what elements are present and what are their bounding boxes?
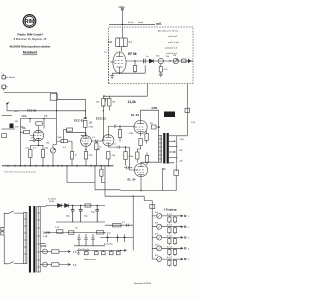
- svg-text:1M: 1M: [46, 143, 49, 145]
- svg-text:1M: 1M: [96, 102, 99, 104]
- svg-text:2,5: 2,5: [73, 251, 77, 254]
- svg-text:0,1: 0,1: [63, 147, 67, 149]
- wire res left V3: [57, 141, 72, 151]
- svg-text:Musikant: Musikant: [23, 51, 38, 55]
- junction routing: [104, 205, 106, 207]
- diode D1 in box: [149, 59, 153, 63]
- resistor row b: [173, 228, 176, 233]
- secondary winding S: [37, 207, 40, 273]
- svg-text:mV.: mV.: [156, 22, 162, 26]
- tube V6 grids: [136, 170, 144, 172]
- svg-text:470: 470: [150, 123, 154, 125]
- wire row 1 with arrow: [152, 215, 183, 217]
- svg-text:100k: 100k: [57, 137, 63, 139]
- potentiometer row: [157, 213, 162, 218]
- transformer core bar 2: [167, 133, 169, 164]
- svg-text:G55: G55: [152, 106, 158, 110]
- balance wire 4: [110, 250, 112, 251]
- V5 plate wire up to transformer: [141, 110, 159, 135]
- heater row 1 wire: [40, 251, 42, 253]
- pot arrow: [157, 236, 161, 240]
- wire input line A drop: [56, 92, 58, 110]
- junction dot lineB: [56, 110, 57, 111]
- wire plate to chain: [126, 60, 193, 62]
- svg-text:2x Z150: 2x Z150: [48, 199, 57, 201]
- svg-text:3: 3: [188, 238, 190, 240]
- route caps down: [106, 234, 109, 242]
- wire resistor below bus: [101, 166, 105, 183]
- ladder row 3: [152, 234, 190, 246]
- tube V5 plate: [137, 120, 144, 123]
- potentiometer row: [157, 224, 162, 229]
- ground bus: [2, 165, 114, 167]
- svg-text:ECC 83: ECC 83: [27, 109, 37, 113]
- mic series box: [2, 134, 7, 138]
- diode D2: [58, 203, 62, 207]
- V6 cathode down: [140, 179, 142, 191]
- balance ground tick 1: [77, 250, 80, 254]
- feedback resistor: [185, 108, 190, 112]
- wire plate V3: [64, 130, 87, 143]
- wire lower coupling: [108, 146, 113, 148]
- ladder top box: [150, 205, 155, 209]
- ladder row 4: [152, 244, 190, 255]
- heater row1 wire arrow: [47, 251, 70, 253]
- screen tap arrow: [156, 126, 160, 128]
- svg-text:GL: GL: [75, 228, 79, 230]
- junction V6 cathode ground: [140, 190, 141, 191]
- V5 screen resistor: [145, 134, 148, 141]
- svg-text:für 2te: für 2te: [128, 21, 135, 24]
- resistor row b: [173, 260, 176, 265]
- wire input line A: [4, 91, 57, 93]
- svg-text:50µ: 50µ: [84, 216, 88, 218]
- bus junction dots: [20, 165, 22, 167]
- svg-text:6,3V: 6,3V: [41, 244, 47, 248]
- svg-text:Radio RIM GmbH: Radio RIM GmbH: [17, 33, 43, 37]
- ladder rows group: [152, 212, 190, 267]
- wire input line B: [7, 110, 85, 112]
- cathode resistor tube V2 left: [29, 150, 32, 158]
- svg-text:25µ: 25µ: [45, 148, 49, 150]
- svg-text:6,3: 6,3: [73, 264, 77, 267]
- output arrow glyph in box: [188, 59, 191, 63]
- wire row 5 with arrow: [152, 258, 183, 260]
- svg-text:50k: 50k: [22, 127, 27, 130]
- wire C3 to grid: [81, 128, 86, 136]
- svg-text:1M: 1M: [173, 55, 176, 57]
- grid network wire: [20, 119, 23, 143]
- balance box 2: [94, 252, 98, 255]
- wire V4 cath: [107, 159, 109, 166]
- resistor row a: [168, 260, 171, 265]
- svg-text:820: 820: [97, 149, 101, 151]
- resistor below bus: [100, 169, 103, 176]
- wire B+ feed down: [121, 10, 123, 38]
- filter ground bus: [56, 221, 105, 223]
- svg-text:0,1: 0,1: [122, 222, 126, 224]
- wire bus drop x67: [67, 166, 95, 183]
- box2 on mid line: [69, 231, 74, 234]
- junction dot chain2: [169, 60, 170, 61]
- resistor under C3: [84, 121, 87, 128]
- junction routing2: [133, 196, 134, 197]
- ladder bus vertical: [151, 201, 153, 260]
- resistor row b: [173, 239, 176, 244]
- resistor feed a: [102, 99, 105, 107]
- node input2: [6, 103, 8, 105]
- output terminal: [184, 215, 186, 217]
- svg-text:25µ: 25µ: [89, 155, 93, 157]
- V5 cathode resistor: [139, 139, 142, 146]
- resistor tube1 plate load: [36, 122, 42, 125]
- grid network resistor: [24, 131, 30, 134]
- primary winding bars inner: [159, 136, 162, 163]
- V6 screen components: [145, 156, 148, 163]
- heater row1 fuse circle: [43, 249, 48, 254]
- wire V4 grid from divider: [102, 111, 105, 141]
- cathode resistor tube V2 right: [41, 150, 44, 158]
- svg-text:220/6: 220/6: [49, 201, 55, 203]
- mains plug symbol: [1, 228, 4, 235]
- indicator tube circle: [158, 58, 163, 63]
- svg-text:1,5k: 1,5k: [25, 148, 30, 150]
- output terminal: [184, 226, 186, 228]
- wire row 3 with arrow: [152, 237, 183, 239]
- input jack J1: [2, 74, 8, 79]
- volume pot arrow: [51, 149, 55, 153]
- power trafo core bar 1: [29, 206, 31, 273]
- tube V1 plate: [116, 52, 123, 57]
- filter cap 3: [95, 206, 99, 223]
- tube V4 envelope: [103, 135, 114, 146]
- svg-text:1k 4,7: 1k 4,7: [167, 225, 174, 227]
- pot arrow: [174, 59, 178, 63]
- wire input line A2: [57, 99, 85, 117]
- junction: [125, 146, 126, 147]
- ground symbol below indicator: [159, 74, 163, 77]
- cathode resistor V3a: [70, 152, 73, 160]
- mic input line 1: [2, 115, 13, 117]
- cathode resistor V3b: [84, 152, 87, 160]
- svg-text:EF 86: EF 86: [128, 52, 137, 56]
- svg-text:470k: 470k: [89, 127, 95, 129]
- pot arrow: [157, 214, 161, 218]
- wire right lower: [162, 164, 176, 191]
- output terminal: [184, 258, 186, 260]
- wire resistor stubs: [169, 259, 175, 267]
- filter cap 1: [71, 206, 75, 223]
- potentiometer row: [157, 235, 162, 240]
- ladder row 2: [152, 223, 190, 235]
- tube V3 envelope: [81, 136, 92, 147]
- secondary tap 6: [169, 136, 177, 163]
- heater row2 box: [52, 263, 60, 266]
- wire mains vertical: [3, 213, 5, 263]
- wire bus drop x95: [95, 166, 121, 190]
- wire to box edge: [186, 60, 193, 62]
- wire chain segment: [144, 63, 146, 73]
- junction lineA2: [85, 110, 86, 111]
- title underline: [23, 54, 38, 56]
- junction balance: [120, 250, 121, 251]
- mic input line 2: [2, 128, 16, 130]
- secondary tap 5: [169, 156, 177, 158]
- svg-text:0,1: 0,1: [33, 148, 37, 150]
- tube V1 EF86 envelope: [113, 52, 126, 73]
- secondary tap 3: [169, 146, 177, 148]
- filter resistor mid: [85, 204, 91, 207]
- svg-text:1M: 1M: [109, 41, 112, 44]
- resistor above V6: [136, 152, 139, 159]
- B+ routing from bus: [105, 166, 144, 251]
- svg-text:1k 4,7: 1k 4,7: [167, 236, 174, 238]
- extra box mid rail right: [97, 231, 104, 234]
- NTC box: [57, 230, 63, 233]
- ladder row 5: [152, 255, 190, 267]
- svg-text:Anschluss für 2te Ka.: Anschluss für 2te Ka.: [158, 30, 179, 33]
- svg-text:2mV: 2mV: [15, 127, 20, 129]
- svg-text:Kanal: Kanal: [138, 22, 144, 24]
- balance box 4: [109, 252, 113, 255]
- output terminal: [184, 247, 186, 249]
- power trafo core bar 2: [33, 206, 35, 273]
- box on mid route: [113, 224, 122, 227]
- svg-text:1M: 1M: [15, 121, 18, 123]
- ladder row 1: [152, 212, 190, 224]
- balance wire 3: [102, 250, 104, 251]
- wire extra resistor: [95, 141, 97, 166]
- HV line: [46, 205, 105, 207]
- pot arrow: [157, 225, 161, 229]
- svg-text:1: 1: [188, 216, 190, 218]
- svg-text:8 München 15, Bayerstr. 25: 8 München 15, Bayerstr. 25: [14, 37, 47, 41]
- coupling cap into tube V3 grid: [84, 111, 86, 118]
- heater row1 box: [52, 250, 60, 253]
- tube V2 grid: [30, 135, 41, 137]
- svg-text:220k: 220k: [22, 115, 28, 118]
- tube V6 cathode: [138, 175, 144, 179]
- balance box 1: [84, 252, 88, 255]
- mic jack dark: [10, 124, 14, 129]
- cap grid: [29, 139, 37, 142]
- wire row 2 with arrow: [152, 226, 183, 228]
- cap on route: [125, 224, 130, 227]
- svg-text:470k: 470k: [129, 133, 135, 135]
- svg-text:RIM: RIM: [25, 19, 35, 25]
- wire resistor stubs: [169, 227, 175, 235]
- svg-text:1k 4,7: 1k 4,7: [167, 214, 174, 216]
- wire cath res: [20, 142, 38, 166]
- svg-text:1k 4,7: 1k 4,7: [167, 246, 174, 248]
- svg-text:2M: 2M: [31, 138, 34, 140]
- secondary tap 2: [169, 140, 174, 142]
- secondary tap 1: [169, 135, 177, 137]
- heater row 2 wire: [40, 264, 42, 266]
- cathode ground wire: [112, 72, 145, 74]
- svg-text:Musikant 2019/61: Musikant 2019/61: [134, 282, 152, 285]
- svg-text:5 Eingänge: 5 Eingänge: [164, 209, 177, 212]
- svg-text:100mV: 100mV: [9, 77, 16, 79]
- svg-text:0,3A: 0,3A: [43, 235, 48, 238]
- tube V5 envelope: [134, 120, 147, 133]
- svg-text:4b/50W Mischpultverstärker: 4b/50W Mischpultverstärker: [9, 45, 51, 49]
- svg-text:8µ 8µ 8µ: 8µ 8µ 8µ: [104, 244, 113, 246]
- pot arrow: [157, 247, 161, 251]
- balance wire 1: [85, 250, 87, 251]
- svg-text:0,1: 0,1: [92, 137, 96, 139]
- cathode resistor Rk: [133, 66, 136, 72]
- balance wire 5: [117, 250, 119, 251]
- svg-text:16Ω: 16Ω: [180, 139, 184, 141]
- wire to EL34 no2 grid: [126, 147, 139, 170]
- svg-text:Entbrummer: Entbrummer: [84, 258, 96, 261]
- pot arrow: [157, 257, 161, 261]
- V5 grid stub: [134, 125, 136, 128]
- svg-text:EL 34: EL 34: [128, 178, 136, 182]
- potentiometer row: [157, 246, 162, 251]
- coupling to V4: [91, 140, 102, 143]
- tube V2 triode1 envelope: [33, 130, 43, 140]
- coupling cap to V6 grid: [124, 166, 133, 169]
- svg-text:47k: 47k: [156, 56, 160, 58]
- svg-text:EL 34: EL 34: [131, 113, 139, 117]
- junction grid: [103, 110, 104, 111]
- wire res above V6: [136, 149, 138, 163]
- wire to EL34 no1 grid: [121, 125, 134, 127]
- pot P1 circle with arrow: [173, 58, 178, 63]
- tube V4 grid: [102, 139, 111, 141]
- wire input line B stub: [6, 104, 8, 111]
- wire lower ground path: [121, 190, 177, 192]
- dashed enclosure box (Zusatzgerät): [109, 27, 194, 84]
- svg-text:und 1,5 mV: und 1,5 mV: [168, 42, 180, 44]
- wire pair join: [118, 38, 126, 52]
- svg-text:ECC 83: ECC 83: [74, 119, 84, 123]
- junction dots HV: [72, 205, 73, 206]
- potentiometer row: [157, 257, 162, 262]
- tube V6 plate: [138, 163, 145, 166]
- switch S1b: [4, 262, 23, 264]
- wire cath res right: [39, 145, 44, 166]
- diode D3: [65, 203, 69, 207]
- switch S1a: [4, 211, 23, 213]
- tube V3 grid: [82, 140, 89, 142]
- output terminal: [184, 237, 186, 239]
- V4 cathode resistor: [107, 152, 110, 160]
- feed from box down: [103, 84, 147, 99]
- svg-text:1M: 1M: [112, 102, 115, 104]
- resistor lower divider: [124, 152, 127, 160]
- svg-text:0,5: 0,5: [44, 115, 48, 118]
- svg-text:5: 5: [188, 259, 190, 261]
- wire Rk to cathode line: [134, 61, 136, 73]
- resistor R1b (right of pair): [123, 38, 127, 47]
- svg-text:1M: 1M: [89, 122, 92, 125]
- svg-text:5k 10µ: 5k 10µ: [104, 233, 111, 235]
- V4 plate up: [108, 125, 121, 135]
- junction dot cathode: [119, 73, 120, 74]
- resistor left of V3: [61, 140, 67, 143]
- wire pot: [53, 111, 57, 166]
- svg-text:25µ: 25µ: [112, 155, 116, 157]
- caps bottom line: [74, 245, 105, 247]
- svg-text:4: 4: [188, 248, 190, 250]
- resistor R1a (left of pair): [116, 38, 120, 47]
- resistor feed b: [108, 99, 111, 107]
- svg-text:0,1: 0,1: [129, 41, 133, 44]
- svg-text:2mV: 2mV: [14, 111, 19, 113]
- heater row2 fuse inner: [43, 264, 48, 266]
- svg-text:ECC 83: ECC 83: [96, 116, 106, 120]
- svg-text:25k: 25k: [166, 56, 170, 58]
- svg-text:5µ: 5µ: [146, 56, 149, 58]
- resistor divider V4 plate: [118, 130, 121, 138]
- svg-text:0,1: 0,1: [104, 52, 108, 54]
- resistor below indicator: [159, 67, 162, 73]
- transformer name plate dark: [164, 112, 175, 118]
- cap C3: [84, 118, 87, 119]
- secondary winding segs: [37, 207, 40, 273]
- svg-text:4Ω: 4Ω: [180, 161, 183, 163]
- resistor row b: [173, 217, 176, 222]
- svg-text:50µ 50µ 8µ: 50µ 50µ 8µ: [78, 249, 90, 251]
- balance wire 2: [95, 250, 97, 251]
- heater row2 wire arrow: [47, 264, 70, 266]
- svg-text:1k 4,7: 1k 4,7: [167, 257, 174, 259]
- plate load resistor V3: [67, 128, 73, 131]
- heater row1 fuse inner: [43, 251, 48, 253]
- tube V2 cathode: [36, 138, 41, 145]
- tube V3 plate: [83, 136, 89, 139]
- transformer core bar 1: [163, 133, 165, 164]
- output transformer primary winding: [159, 136, 162, 163]
- svg-text:8Ω: 8Ω: [180, 150, 183, 152]
- junction: [119, 126, 120, 127]
- primary winding segs: [24, 213, 27, 264]
- wire feed a: [102, 106, 104, 111]
- wire V3a: [71, 151, 73, 166]
- input attenuator box: [50, 94, 57, 101]
- svg-text:50µ: 50µ: [66, 216, 70, 218]
- cap C2 on chain: [144, 59, 146, 63]
- bus ticks: [8, 165, 108, 167]
- svg-text:1,2k: 1,2k: [55, 227, 60, 229]
- terminal at top feed: [121, 8, 124, 10]
- heater row2 fuse circle: [43, 262, 48, 267]
- wire V5 cath down: [137, 146, 140, 150]
- tap terminals: [174, 141, 175, 142]
- tube V1 grid dashes: [115, 61, 123, 64]
- input arrow node: [7, 102, 10, 104]
- junction feed top: [122, 24, 123, 25]
- svg-text:2: 2: [188, 227, 190, 229]
- junction dot plate chain: [134, 60, 135, 61]
- resistor row a: [168, 217, 171, 222]
- wire divider: [119, 126, 121, 141]
- junction bus drops: [66, 165, 67, 166]
- V4 lower coupling cap: [113, 146, 125, 149]
- input jack J2: [1, 85, 8, 91]
- resistor row b: [173, 249, 176, 254]
- wire resistor stubs: [169, 238, 175, 246]
- resistor row a: [168, 249, 171, 254]
- screen tap box: [152, 125, 157, 129]
- filter cap 2: [79, 206, 83, 223]
- mid caps row: [77, 234, 80, 246]
- HV tap wire: [40, 206, 46, 207]
- svg-text:4,7k: 4,7k: [164, 69, 169, 71]
